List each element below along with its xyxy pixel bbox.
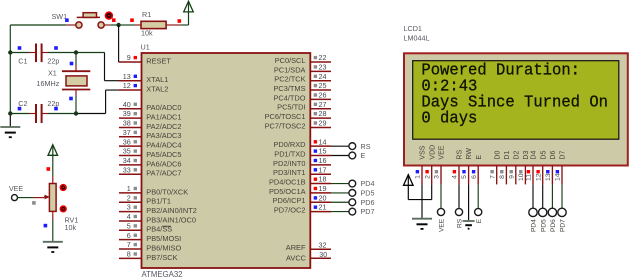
probe square SW1 right net (112, 18, 116, 22)
wire SW1 left (10, 24, 66, 26)
svg-text:9: 9 (508, 175, 515, 179)
terminal RS (LCD) (455, 208, 462, 215)
svg-text:D6: D6 (550, 151, 557, 160)
node junction SW1-R1-RESET (116, 23, 120, 27)
svg-text:PA0/ADC0: PA0/ADC0 (146, 103, 181, 112)
svg-text:PC0/SCL: PC0/SCL (275, 56, 306, 65)
probe square XTAL1 net (70, 62, 74, 66)
svg-text:XTAL1: XTAL1 (146, 75, 168, 84)
svg-text:PB6/MISO: PB6/MISO (146, 243, 181, 252)
wire PD5 net (chip side) (331, 192, 349, 194)
svg-text:D1: D1 (504, 151, 511, 160)
node junction rail-C1 (8, 50, 12, 54)
pin 20 PD6/ICP1 (310, 201, 331, 203)
pin 1 PB0/T0/XCK (119, 192, 142, 194)
wire PD6 net (chip side) (331, 201, 349, 203)
terminal E (chip side) (349, 152, 356, 159)
probe square RV1 wiper net (32, 201, 36, 205)
svg-text:RS: RS (457, 218, 464, 228)
svg-text:PD6: PD6 (361, 198, 375, 207)
pin 39 PA1/ADC1 (119, 117, 142, 119)
svg-text:PD5/OC1A: PD5/OC1A (269, 187, 306, 196)
svg-text:2: 2 (424, 175, 431, 179)
wire C1 to crystal-top junction (42, 52, 48, 54)
probe square C1 right (54, 46, 58, 50)
svg-text:PD4: PD4 (531, 219, 538, 232)
pin 34 PA6/ADC6 (119, 164, 142, 166)
wire PD4 (LCD side) (532, 184, 534, 208)
svg-text:20: 20 (319, 193, 327, 202)
svg-text:33: 33 (123, 165, 131, 174)
svg-text:4: 4 (127, 212, 131, 221)
terminal E (LCD) (475, 208, 482, 215)
svg-text:AREF: AREF (286, 243, 306, 252)
svg-text:E: E (361, 151, 366, 160)
svg-text:PD7/OC2: PD7/OC2 (274, 206, 306, 215)
pin 28 PC6/TOSC1 (310, 117, 331, 119)
svg-text:12: 12 (123, 81, 131, 90)
svg-text:VDD: VDD (429, 145, 436, 160)
svg-text:14: 14 (555, 173, 562, 181)
svg-text:PA5/ADC5: PA5/ADC5 (146, 150, 181, 159)
svg-text:5: 5 (127, 221, 131, 230)
LCD display area (413, 61, 619, 140)
pin 33 PA7/ADC7 (119, 173, 142, 175)
svg-text:PD5: PD5 (361, 189, 375, 198)
svg-text:12: 12 (535, 173, 542, 181)
node junction crystal bottom (74, 111, 78, 115)
svg-text:LM044L: LM044L (404, 34, 430, 43)
terminal PD4 (chip side) (349, 180, 356, 187)
svg-text:PA1/ADC1: PA1/ADC1 (146, 113, 181, 122)
svg-text:39: 39 (123, 109, 131, 118)
svg-text:D5: D5 (540, 151, 547, 160)
svg-text:36: 36 (123, 137, 131, 146)
svg-text:26: 26 (319, 91, 327, 100)
svg-text:LCD1: LCD1 (404, 24, 422, 33)
svg-text:VSS: VSS (420, 145, 427, 159)
svg-text:E: E (476, 155, 483, 160)
svg-text:PD6: PD6 (550, 219, 557, 232)
potentiometer RV1 operate buttons (60, 185, 66, 191)
svg-text:PA4/ADC4: PA4/ADC4 (146, 141, 181, 150)
svg-text:D2: D2 (513, 151, 520, 160)
wire junction to R1 (119, 24, 135, 26)
probe square C2 left (18, 107, 22, 111)
svg-text:22p: 22p (47, 99, 59, 108)
probe square R1 right net (178, 19, 182, 23)
terminal PD5 (chip side) (349, 190, 356, 197)
svg-text:16: 16 (319, 156, 327, 165)
pin 24 PC2/TCK (310, 80, 331, 82)
ground (RV1) (43, 241, 63, 243)
svg-text:PD0/RXD: PD0/RXD (273, 140, 305, 149)
wire crystal bottom lead (75, 90, 77, 97)
probe square SW1 left net (65, 18, 69, 22)
svg-text:27: 27 (319, 100, 327, 109)
svg-text:8: 8 (499, 175, 506, 179)
svg-text:PB7/SCK: PB7/SCK (146, 253, 177, 262)
probe square C1 left (18, 46, 22, 50)
svg-text:8: 8 (127, 249, 131, 258)
svg-text:1: 1 (415, 175, 422, 179)
terminal PD6 (chip side) (349, 199, 356, 206)
pin 27 PC5/TDI (310, 108, 331, 110)
svg-text:RW: RW (466, 148, 473, 160)
svg-text:28: 28 (319, 109, 327, 118)
svg-text:RS: RS (361, 142, 371, 151)
pin 12 XTAL2 (119, 89, 142, 91)
wire PD4 net (chip side) (331, 183, 349, 185)
power VCC arrow (LCD VDD) (407, 175, 409, 200)
svg-text:16MHz: 16MHz (37, 79, 60, 88)
wire SW1 right to junction (104, 24, 110, 26)
svg-text:PB1/T1: PB1/T1 (146, 197, 171, 206)
svg-text:D7: D7 (560, 151, 567, 160)
svg-text:PB5/MOSI: PB5/MOSI (146, 234, 181, 243)
terminal RS (chip side) (349, 143, 356, 150)
svg-text:E: E (476, 218, 483, 223)
pin 21 PD7/OC2 (310, 211, 331, 213)
LCD LCD1 LM044L body (404, 53, 628, 165)
wire PD7 (LCD side) (561, 184, 563, 208)
svg-text:11: 11 (526, 174, 533, 181)
svg-text:21: 21 (319, 203, 327, 212)
pin 35 PA5/ADC5 (119, 155, 142, 157)
svg-text:PA3/ADC3: PA3/ADC3 (146, 131, 181, 140)
svg-text:C2: C2 (18, 99, 27, 108)
probe square C2 right (54, 107, 58, 111)
svg-text:D4: D4 (531, 151, 538, 160)
ground (LCD VSS) (412, 218, 432, 220)
svg-text:13: 13 (545, 173, 552, 181)
wire RS net (chip side) (331, 145, 349, 147)
pin 5 PB4/SS (119, 229, 142, 231)
svg-text:PB2/AIN0/INT2: PB2/AIN0/INT2 (146, 206, 197, 215)
svg-text:PB3/AIN1/OC0: PB3/AIN1/OC0 (146, 215, 196, 224)
terminal PD7 (chip side) (349, 208, 356, 215)
svg-text:9: 9 (127, 53, 131, 62)
svg-text:VEE: VEE (439, 218, 446, 232)
terminal PD6 (LCD side) (548, 208, 556, 216)
power VCC arrow (RV1) (52, 145, 54, 158)
svg-text:SW1: SW1 (52, 12, 68, 21)
svg-text:15: 15 (319, 147, 327, 156)
switch SW1 actuator bar (77, 16, 100, 18)
wire RESET net (118, 25, 120, 62)
wire RV1 bottom lead (52, 211, 54, 220)
svg-text:18: 18 (319, 175, 327, 184)
ground (LCD RW) (463, 220, 475, 222)
svg-text:10: 10 (518, 173, 525, 181)
svg-text:6: 6 (127, 231, 131, 240)
crystal X1 (62, 71, 90, 89)
terminal PD7 (LCD side) (558, 208, 566, 216)
capacitor C1 (36, 44, 42, 63)
svg-text:PD1/TXD: PD1/TXD (274, 149, 305, 158)
svg-text:XTAL2: XTAL2 (146, 84, 168, 93)
probe square junction net (130, 18, 134, 22)
IC U1 ATMEGA32 body (142, 53, 311, 268)
potentiometer RV1 body (49, 184, 56, 212)
pin 36 PA4/ADC4 (119, 145, 142, 147)
resistor R1 (141, 21, 166, 28)
svg-text:6: 6 (471, 175, 478, 179)
svg-text:14: 14 (319, 137, 327, 146)
pin 17 PD3/INT1 (310, 173, 331, 175)
svg-text:7: 7 (489, 175, 496, 179)
svg-text:ATMEGA32: ATMEGA32 (142, 270, 183, 279)
power VCC arrow (top right) (188, 1, 190, 25)
pin 6 PB5/MOSI (119, 239, 142, 241)
wire C2 left segment (10, 113, 29, 115)
pin 26 PC4/TDO (310, 98, 331, 100)
pin 8 PB7/SCK (119, 257, 142, 259)
svg-text:PA6/ADC6: PA6/ADC6 (146, 159, 181, 168)
svg-text:RESET: RESET (146, 56, 171, 65)
svg-text:2: 2 (127, 193, 131, 202)
probe square RV1 top (47, 167, 51, 171)
wire E net (chip side) (331, 155, 349, 157)
svg-text:D3: D3 (523, 151, 530, 160)
svg-text:7: 7 (127, 240, 131, 249)
svg-text:PD5: PD5 (540, 219, 547, 232)
svg-text:PD7: PD7 (560, 219, 567, 232)
svg-text:19: 19 (319, 184, 327, 193)
svg-text:34: 34 (123, 156, 131, 165)
svg-text:4: 4 (452, 175, 459, 179)
svg-text:VEE: VEE (439, 145, 446, 159)
svg-text:22: 22 (319, 53, 327, 62)
svg-text:25: 25 (319, 81, 327, 90)
svg-text:PD4: PD4 (361, 179, 375, 188)
probe square XTAL2 net (69, 97, 73, 101)
pin 2 PB1/T1 (119, 201, 142, 203)
pin 13 XTAL1 (119, 80, 142, 82)
wire RV1 top lead (52, 158, 54, 176)
pin 29 PC7/TOSC2 (310, 126, 331, 128)
svg-text:38: 38 (123, 119, 131, 128)
svg-text:29: 29 (319, 119, 327, 128)
svg-text:13: 13 (123, 72, 131, 81)
svg-text:40: 40 (123, 100, 131, 109)
pin 15 PD1/TXD (310, 155, 331, 157)
svg-text:PC1/SDA: PC1/SDA (274, 65, 306, 74)
wire GND rail left vertical (9, 25, 11, 114)
svg-text:U1: U1 (141, 43, 150, 52)
pin 37 PA3/ADC3 (119, 136, 142, 138)
wire PD6 (LCD side) (551, 184, 553, 208)
svg-text:PB0/T0/XCK: PB0/T0/XCK (146, 187, 188, 196)
svg-text:PC5/TDI: PC5/TDI (277, 103, 305, 112)
pin 9 RESET (119, 61, 142, 63)
wire C1 left segment (10, 52, 29, 54)
svg-text:10k: 10k (141, 29, 153, 38)
svg-text:C1: C1 (18, 56, 27, 65)
pin 4 PB3/AIN1/OC0 (119, 220, 142, 222)
svg-text:10k: 10k (65, 223, 77, 232)
wire RS (LCD) (458, 184, 460, 208)
svg-text:3: 3 (434, 175, 441, 179)
svg-text:R1: R1 (142, 10, 151, 19)
svg-text:PC6/TOSC1: PC6/TOSC1 (265, 112, 306, 121)
svg-text:RS: RS (457, 150, 464, 160)
svg-text:3: 3 (127, 203, 131, 212)
pin 22 PC0/SCL (310, 61, 331, 63)
svg-text:PC2/TCK: PC2/TCK (274, 75, 305, 84)
wire R1 to VCC (166, 24, 180, 26)
svg-text:1: 1 (127, 184, 131, 193)
svg-text:23: 23 (319, 62, 327, 71)
svg-text:PD4/OC1B: PD4/OC1B (269, 177, 306, 186)
svg-text:35: 35 (123, 147, 131, 156)
wire VEE (LCD) (440, 184, 442, 208)
svg-text:PC7/TOSC2: PC7/TOSC2 (265, 121, 306, 130)
svg-text:PD7: PD7 (361, 207, 375, 216)
svg-text:D0: D0 (494, 151, 501, 160)
ground (left rail) (0, 126, 20, 128)
terminal VEE (LCD) (437, 208, 444, 215)
wire XTAL2 net (105, 90, 107, 113)
wire VDD to VCC (431, 184, 433, 199)
svg-text:32: 32 (319, 240, 327, 249)
wire C2 to crystal-bottom junction (42, 113, 48, 115)
switch SW1 contacts (76, 22, 82, 28)
pin 19 PD5/OC1A (310, 192, 331, 194)
svg-text:17: 17 (319, 165, 327, 174)
pin 25 PC3/TMS (310, 89, 331, 91)
svg-text:AVCC: AVCC (286, 254, 307, 263)
wire E (LCD) (477, 184, 479, 208)
svg-text:VEE: VEE (9, 186, 23, 193)
svg-text:X1: X1 (48, 69, 57, 78)
svg-text:22p: 22p (47, 56, 59, 65)
capacitor C2 (36, 104, 42, 123)
svg-text:5: 5 (461, 175, 468, 179)
potentiometer RV1 wiper arrow (44, 196, 46, 198)
svg-text:PD2/INT0: PD2/INT0 (273, 159, 305, 168)
wire XTAL1 net (104, 53, 106, 81)
wire PD7 net (chip side) (331, 211, 349, 213)
pin 18 PD4/OC1B (310, 183, 331, 185)
svg-text:PC4/TDO: PC4/TDO (273, 93, 305, 102)
pin 3 PB2/AIN0/INT2 (119, 211, 142, 213)
wire PD5 (LCD side) (542, 184, 544, 208)
pin 14 PD0/RXD (310, 145, 331, 147)
pin 32 AREF (310, 248, 331, 250)
node junction rail-C2 (8, 111, 12, 115)
pin 30 AVCC (310, 257, 331, 259)
wire RW to ground (468, 184, 470, 221)
wire VSS to ground (421, 184, 423, 218)
svg-text:0 days: 0 days (421, 109, 477, 128)
pin 40 PA0/ADC0 (119, 108, 142, 110)
svg-text:PC3/TMS: PC3/TMS (273, 84, 305, 93)
svg-text:37: 37 (123, 128, 131, 137)
pin 16 PD2/INT0 (310, 164, 331, 166)
svg-text:PD3/INT1: PD3/INT1 (273, 168, 305, 177)
pin 23 PC1/SDA (310, 70, 331, 72)
pin 7 PB6/MISO (119, 248, 142, 250)
wire VEE to RV1 wiper (18, 197, 34, 199)
pin 38 PA2/ADC2 (119, 126, 142, 128)
svg-text:30: 30 (319, 252, 327, 259)
wire crystal top lead (75, 53, 77, 66)
probe square RV1 bottom (44, 224, 48, 228)
svg-text:PA2/ADC2: PA2/ADC2 (146, 122, 181, 131)
svg-text:24: 24 (319, 72, 327, 81)
svg-text:PA7/ADC7: PA7/ADC7 (146, 169, 181, 178)
switch SW1 operate button (106, 12, 113, 19)
node junction crystal top (74, 50, 78, 54)
terminal PD5 (LCD side) (539, 208, 547, 216)
terminal VEE (left) (12, 195, 18, 201)
terminal PD4 (LCD side) (529, 208, 537, 216)
svg-text:PD6/ICP1: PD6/ICP1 (273, 196, 306, 205)
